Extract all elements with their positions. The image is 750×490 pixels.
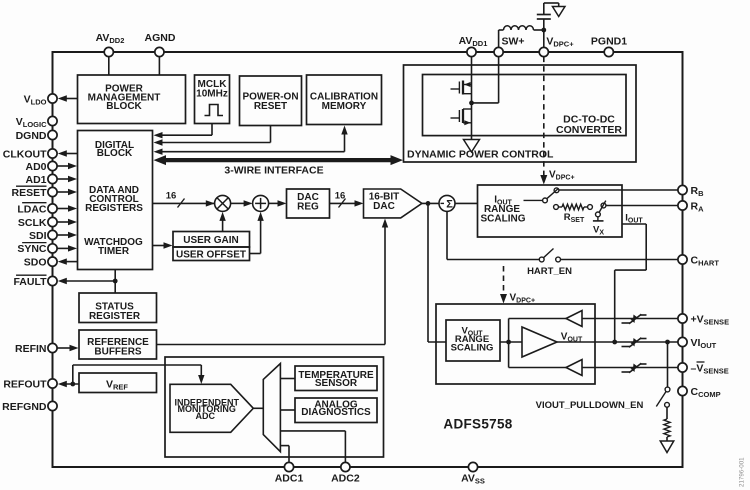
pin +VSENSE — [678, 313, 729, 326]
block monitoring boundary — [165, 357, 384, 457]
resistor RSET — [554, 204, 593, 224]
svg-text:AD1: AD1 — [25, 174, 46, 186]
wire POR to digital — [154, 126, 271, 146]
pin AVDD1 — [459, 35, 488, 57]
ground (pulldown) — [660, 441, 674, 453]
pin VDPC+ — [539, 36, 574, 57]
wire SYNC — [57, 245, 77, 251]
wire mux to temperature sensor — [280, 378, 295, 380]
wire IOUT to output line — [615, 213, 647, 343]
buffer +VSENSE — [566, 311, 582, 327]
block CALIBRATION MEMORY — [307, 75, 382, 125]
pin PGND1 — [591, 36, 627, 57]
transistor M1 — [451, 81, 472, 95]
block POWER-ON RESET — [240, 76, 302, 126]
svg-text:3-WIRE INTERFACE: 3-WIRE INTERFACE — [224, 165, 323, 177]
pin REFOUT — [3, 378, 57, 390]
wire VREF to REFOUT — [58, 381, 79, 387]
summer node — [439, 195, 455, 211]
block VREF — [79, 373, 157, 393]
wire VDPC+ riser — [543, 19, 545, 47]
svg-text:REGISTERS: REGISTERS — [85, 203, 143, 214]
label ADFS5758 — [443, 417, 512, 432]
pin AGND — [145, 32, 176, 57]
pin DGND — [16, 130, 58, 142]
block TEMPERATURE SENSOR — [295, 366, 377, 391]
capacitor C1 — [537, 3, 559, 19]
svg-text:AVDD2: AVDD2 — [96, 32, 125, 45]
wire AD1 — [57, 176, 77, 182]
wire to RB — [559, 189, 678, 191]
block 16-BIT DAC — [364, 189, 422, 218]
pin LDAC — [17, 203, 57, 216]
wire AD0 — [57, 163, 77, 169]
wire summer to HART switch — [447, 211, 539, 259]
block DC-TO-DC CONVERTER — [423, 75, 627, 137]
svg-text:AVSS: AVSS — [461, 473, 485, 486]
block VOUT stage boundary — [436, 304, 595, 384]
block REFERENCE BUFFERS — [79, 330, 157, 359]
pin CCOMP — [678, 386, 721, 399]
pin SDI — [29, 230, 57, 242]
wire DAC to summer — [422, 201, 439, 206]
label figure number — [739, 457, 746, 487]
wire HART to CHART — [561, 259, 678, 261]
pin REFIN — [15, 343, 57, 355]
wire REFIN — [57, 345, 78, 351]
svg-text:SYNC: SYNC — [17, 243, 47, 255]
svg-text:21796-001: 21796-001 — [739, 457, 746, 487]
svg-text:VLOGIC: VLOGIC — [16, 116, 47, 129]
chip boundary — [53, 52, 683, 467]
switch VIOUT_PULLDOWN_EN — [536, 387, 670, 411]
pin RESET — [11, 186, 57, 199]
svg-text:VX: VX — [593, 225, 604, 237]
svg-text:USER GAIN: USER GAIN — [183, 235, 239, 246]
svg-text:DIAGNOSTICS: DIAGNOSTICS — [301, 407, 371, 418]
wire PMB to VLDO — [58, 95, 78, 101]
pin VLOGIC — [16, 116, 57, 129]
wire refbuf to 16-bit DAC — [157, 219, 389, 345]
pin -VSENSE — [678, 362, 729, 376]
svg-text:HART_EN: HART_EN — [527, 266, 572, 277]
inductor L1 — [504, 26, 544, 30]
svg-text:DAC: DAC — [373, 201, 395, 212]
wire VREF to monitoring ADC — [73, 365, 205, 384]
svg-text:REFGND: REFGND — [2, 401, 47, 413]
svg-text:BUFFERS: BUFFERS — [94, 347, 142, 358]
block STATUS REGISTER — [79, 293, 157, 323]
wire user gain to multiplier — [219, 212, 225, 232]
svg-text:SW+: SW+ — [501, 36, 524, 48]
svg-text:CONVERTER: CONVERTER — [556, 124, 622, 136]
svg-text:AGND: AGND — [145, 32, 176, 44]
svg-text:FAULT: FAULT — [13, 276, 47, 288]
adder node — [253, 195, 269, 211]
svg-text:BLOCK: BLOCK — [106, 101, 142, 112]
wire digital to user offset — [153, 242, 173, 248]
pin SW+ — [494, 36, 525, 57]
svg-text:Σ: Σ — [446, 198, 453, 210]
pin REFGND — [2, 401, 57, 413]
svg-text:TIMER: TIMER — [98, 246, 130, 257]
svg-text:SCALING: SCALING — [481, 214, 526, 225]
block VOUT RANGE SCALING — [446, 320, 500, 361]
svg-text:RB: RB — [691, 185, 705, 198]
svg-text:CLKOUT: CLKOUT — [3, 148, 47, 160]
wire mux to ADC2 — [280, 431, 345, 463]
svg-text:CHART: CHART — [691, 254, 720, 267]
wire adc to mux — [253, 407, 263, 409]
svg-text:RESET: RESET — [254, 101, 287, 112]
wire mux to ADC1 — [280, 446, 289, 463]
svg-text:DGND: DGND — [16, 130, 47, 142]
svg-text:ADC2: ADC2 — [331, 473, 360, 485]
pin SDO — [24, 256, 57, 268]
svg-text:REGISTER: REGISTER — [89, 311, 141, 322]
pin AD1 — [25, 174, 57, 186]
multiplier node — [215, 195, 231, 211]
pin CHART — [678, 254, 719, 267]
wire SW+ riser — [499, 30, 504, 47]
wire VDPC+ dashed to IOUT scaling — [540, 57, 574, 185]
wire SDI — [57, 232, 77, 238]
node M1-M2 junction — [469, 101, 474, 106]
svg-text:USER OFFSET: USER OFFSET — [176, 249, 246, 260]
wire LDAC — [57, 205, 77, 211]
pin CLKOUT — [3, 148, 57, 160]
ground (top) — [552, 7, 565, 17]
pin VLDO — [24, 93, 57, 106]
wire +VSENSE — [582, 318, 678, 320]
wire user offset to adder — [250, 212, 264, 254]
svg-text:SDI: SDI — [29, 230, 47, 242]
svg-text:CCOMP: CCOMP — [691, 386, 721, 399]
block POWER MANAGEMENT — [78, 75, 186, 124]
wire -VSENSE — [582, 367, 678, 369]
svg-text:–VSENSE: –VSENSE — [691, 362, 729, 375]
wire multiplier to adder — [231, 200, 253, 206]
wire SCLK — [57, 219, 77, 225]
svg-text:SCLK: SCLK — [18, 217, 47, 229]
svg-text:AVDD1: AVDD1 — [459, 35, 488, 48]
svg-text:RSET: RSET — [564, 212, 585, 224]
svg-text:SENSOR: SENSOR — [315, 378, 358, 389]
wire mux to analog diagnostics — [280, 409, 295, 411]
block USER GAIN — [173, 232, 250, 248]
wire summer branch to VOUT scaling — [428, 203, 446, 342]
wire RESET — [57, 189, 77, 195]
pin ADC1 — [275, 462, 304, 484]
resistor (pulldown) — [664, 407, 670, 441]
wire AVDD2 to PMB — [108, 57, 110, 75]
svg-text:VIOUT: VIOUT — [691, 337, 717, 350]
switch (-VSENSE isolation) — [622, 363, 647, 372]
svg-text:IOUT: IOUT — [625, 213, 643, 225]
svg-text:VDPC+: VDPC+ — [510, 293, 536, 305]
node VDPC+ junction — [541, 28, 546, 33]
svg-text:16: 16 — [166, 190, 177, 201]
svg-text:SDO: SDO — [24, 256, 47, 268]
svg-text:10MHz: 10MHz — [196, 89, 228, 100]
svg-text:REFIN: REFIN — [15, 343, 47, 355]
wire SW+ to node — [472, 57, 499, 103]
wire DAC REG to 16-bit DAC — [330, 190, 364, 207]
wire AGND to PMB — [158, 57, 160, 75]
switch (VIOUT isolation) — [622, 338, 647, 347]
wire MCLK to digital — [154, 124, 213, 139]
wire SDO — [58, 258, 78, 264]
op-amp VOUT — [522, 327, 583, 357]
mux (monitoring) — [263, 364, 280, 452]
wire digital to calibration memory — [154, 126, 348, 155]
pin RA — [678, 200, 704, 213]
switch S2 — [596, 201, 606, 217]
pin SCLK — [18, 217, 57, 229]
svg-text:VDPC+: VDPC+ — [549, 170, 575, 182]
ground (DPC) — [464, 140, 480, 153]
block DIGITAL — [78, 131, 153, 270]
switch S1 — [524, 188, 559, 203]
wire VOUT to VIOUT — [557, 340, 678, 345]
wire digital to multiplier — [153, 190, 215, 207]
svg-text:LDAC: LDAC — [17, 203, 47, 215]
switch HART_EN — [527, 249, 572, 278]
wire CLKOUT — [58, 150, 78, 156]
pin VIOUT — [678, 337, 717, 350]
svg-text:ADFS5758: ADFS5758 — [443, 417, 512, 432]
transistor M2 — [451, 109, 472, 125]
node VRS output — [500, 340, 522, 345]
wire digital to status register — [114, 270, 116, 294]
switch (+VSENSE isolation) — [622, 314, 647, 323]
wire summer to IOUT scaling — [455, 202, 478, 204]
svg-text:BLOCK: BLOCK — [97, 148, 133, 159]
adc INDEPENDENT MONITORING — [170, 384, 253, 432]
wire FAULT — [58, 278, 118, 284]
svg-text:REFOUT: REFOUT — [3, 378, 47, 390]
wire VIOUT to pulldown switch — [667, 342, 669, 387]
svg-text:ADC1: ADC1 — [275, 473, 304, 485]
block DAC REG — [287, 189, 330, 218]
block IOUT RANGE SCALING — [478, 185, 623, 237]
svg-text:MEMORY: MEMORY — [322, 101, 367, 112]
svg-text:16: 16 — [335, 190, 346, 201]
block MCLK 10MHz — [195, 75, 230, 124]
node VX — [593, 217, 604, 237]
block ANALOG DIAGNOSTICS — [295, 398, 377, 423]
wire VDPC+ dashed to VOUT block — [500, 266, 535, 305]
pin AVSS — [461, 462, 485, 485]
svg-text:SCALING: SCALING — [451, 343, 494, 354]
wire adder to DAC REG — [269, 200, 287, 206]
wire to RA — [606, 205, 678, 207]
pin AD0 — [25, 161, 57, 173]
pin ADC2 — [331, 462, 360, 484]
svg-text:ADC: ADC — [196, 411, 216, 421]
bus 3-WIRE INTERFACE — [154, 155, 404, 176]
pin AVDD2 — [96, 32, 125, 57]
svg-text:VDPC+: VDPC+ — [546, 36, 574, 49]
svg-text:PGND1: PGND1 — [591, 36, 627, 48]
block DYNAMIC POWER CONTROL — [404, 65, 637, 162]
svg-text:+VSENSE: +VSENSE — [691, 313, 730, 326]
svg-text:DYNAMIC POWER CONTROL: DYNAMIC POWER CONTROL — [407, 149, 554, 161]
svg-text:RA: RA — [691, 200, 705, 213]
buffer -VSENSE — [566, 360, 582, 376]
wire feedback loop — [509, 319, 566, 368]
svg-text:VLDO: VLDO — [24, 93, 47, 106]
svg-text:RESET: RESET — [11, 187, 47, 199]
pin FAULT — [13, 275, 57, 288]
pin SYNC — [17, 243, 57, 256]
pin RB — [678, 185, 704, 198]
svg-text:VREF: VREF — [106, 379, 128, 392]
svg-text:VIOUT_PULLDOWN_EN: VIOUT_PULLDOWN_EN — [536, 400, 644, 411]
wire AVDD1 rail — [471, 57, 473, 140]
svg-text:REG: REG — [297, 202, 319, 213]
svg-text:AD0: AD0 — [25, 161, 46, 173]
block USER OFFSET — [173, 247, 250, 261]
